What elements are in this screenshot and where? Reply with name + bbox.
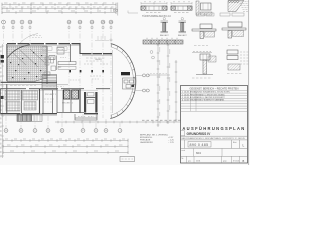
scale reference box bottom xyxy=(120,157,135,162)
svg-text:C: C xyxy=(34,129,36,133)
arc wall outer xyxy=(110,44,136,119)
wall step at x80 xyxy=(80,43,82,54)
room label plate B xyxy=(57,47,67,50)
bottom dimension chain 3 figures xyxy=(10,150,120,152)
grid lines to bottom bubbles xyxy=(6,113,120,128)
svg-text:FLUR: FLUR xyxy=(58,50,64,52)
svg-text:E: E xyxy=(61,129,63,133)
svg-text:gez.: gez. xyxy=(188,161,192,163)
svg-text:AUSFÜHRUNGSPLAN: AUSFÜHRUNGSPLAN xyxy=(182,126,245,131)
svg-text:Blatt: Blatt xyxy=(233,141,237,144)
svg-text:ersb.: ersb. xyxy=(182,149,186,152)
small circles near chain tops xyxy=(150,51,153,54)
interior wall right of hall xyxy=(46,46,48,84)
shaft 1 xyxy=(64,90,71,99)
svg-text:L: L xyxy=(243,144,245,148)
svg-text:1 04.84 ERGÄNZUNG TÜRZARGEN: 1 04.84 ERGÄNZUNG TÜRZARGEN U. STURZ KOR… xyxy=(182,91,230,94)
top dimension chain 2 figures xyxy=(3,6,114,8)
svg-text:M 1:100: M 1:100 xyxy=(233,161,239,163)
dimension end cluster right xyxy=(113,3,118,16)
bubble pair lower right stem xyxy=(135,90,143,92)
bottom row dividers xyxy=(187,156,240,163)
bottom dimension extension verticals xyxy=(3,139,128,155)
bottom dimension chain 2 xyxy=(3,145,128,148)
short dim with note mid right xyxy=(148,74,170,75)
svg-text:05.84: 05.84 xyxy=(196,161,200,163)
grid bubble small tags xyxy=(3,27,113,29)
grid bubble numbers xyxy=(3,20,113,24)
svg-text:B: B xyxy=(20,129,22,133)
detail lintel 2 xyxy=(171,2,192,13)
svg-text:D: D xyxy=(47,129,49,133)
corridor upper line xyxy=(1,84,69,86)
svg-text:TÜRSTURZBALKEN B 1:10: TÜRSTURZBALKEN B 1:10 xyxy=(142,15,171,18)
svg-text:BAULAST: BAULAST xyxy=(178,34,187,37)
subtitle cell box xyxy=(181,131,185,136)
exterior wall top-left xyxy=(7,43,80,45)
legend strip small boxes xyxy=(197,13,245,16)
svg-text:GEGENST. BEREICH – RECHTE FRIS: GEGENST. BEREICH – RECHTE FRISTEN xyxy=(190,88,239,91)
ground line with ticks xyxy=(55,121,185,124)
dark position label at arc xyxy=(121,72,130,75)
stair treads block xyxy=(42,75,57,90)
chain figure marks rotated xyxy=(160,47,170,116)
elevator wall right xyxy=(95,92,97,113)
top dimension chain 3 figures xyxy=(6,10,112,12)
top dimension chain 1 figures xyxy=(4,2,114,4)
bottom wall under elevator xyxy=(84,113,98,115)
grid bubble row top xyxy=(2,20,113,24)
bottom grid bubble numbers xyxy=(5,129,121,133)
stair fixtures right of hall xyxy=(49,56,57,71)
elevator internal partition xyxy=(86,97,95,99)
position label dark dot xyxy=(132,85,135,88)
vertical dimension chain 3 right xyxy=(175,60,178,122)
lower band rack grids xyxy=(5,91,38,112)
small circle tag at wall end xyxy=(110,39,112,41)
svg-text:LAGER: LAGER xyxy=(95,58,102,61)
ground line figures xyxy=(142,119,184,121)
svg-text:PROJEKT 1: PROJEKT 1 xyxy=(45,94,57,96)
svg-text:WC: WC xyxy=(58,67,62,69)
svg-text:4 11.84 GRUNDRISS IV KOMPLET: 4 11.84 GRUNDRISS IV KOMPLETT ÜBERARB. xyxy=(182,99,225,102)
top dimension extension verticals xyxy=(2,3,116,15)
detail sill section A xyxy=(192,24,216,46)
bubble pair mid right stem xyxy=(136,74,143,76)
detail lintel 1 xyxy=(141,2,167,13)
external stair right lighter part xyxy=(32,115,43,122)
svg-text:gepr.: gepr. xyxy=(223,160,227,163)
svg-text:B: B xyxy=(243,159,245,163)
svg-text:– 1.25: – 1.25 xyxy=(168,142,175,144)
paper background xyxy=(0,0,250,165)
rule under room labels xyxy=(40,52,70,54)
interior wall vertical B xyxy=(70,44,72,62)
revision table rules xyxy=(181,91,248,112)
beam rectangle xyxy=(58,62,76,65)
columns row xyxy=(69,70,104,72)
faint dim line above lobby wall xyxy=(95,40,109,42)
svg-text:LAGERBÜRO: LAGERBÜRO xyxy=(140,141,153,144)
hatched hall room xyxy=(7,46,47,82)
elevator lower cell xyxy=(88,100,95,104)
svg-text:890 0 485: 890 0 485 xyxy=(190,143,209,147)
leader note text xyxy=(30,36,42,38)
misc small annotation dashes in plan xyxy=(10,58,106,87)
bottom dimension chain 2 figures xyxy=(7,144,124,146)
top dimension chain 1 xyxy=(2,3,116,6)
arc wall inner xyxy=(111,47,134,115)
bubble pair lower right xyxy=(143,89,150,92)
svg-text:604: 604 xyxy=(196,151,201,155)
exterior wall top-left inner face xyxy=(7,44,80,46)
number row rules xyxy=(181,140,248,156)
left exterior wall xyxy=(6,44,8,114)
grid lines from top bubbles xyxy=(4,25,112,119)
svg-text:GRUNDRISS IV: GRUNDRISS IV xyxy=(187,132,212,136)
corridor lower wall inner face xyxy=(1,89,99,91)
exterior wall top-right xyxy=(82,53,112,55)
detail anchor post 2 xyxy=(178,18,187,38)
level notes text block xyxy=(140,133,175,144)
elevator wall left xyxy=(84,92,86,113)
hall bottom wall xyxy=(1,81,58,83)
svg-text:BAULAST: BAULAST xyxy=(160,34,169,37)
vertical dimension chain 1 right xyxy=(157,43,160,127)
shaft 2 xyxy=(72,90,79,99)
corridor text marks lower band xyxy=(44,99,54,102)
top dimension chain 3 xyxy=(2,11,116,14)
bubble pair mid right xyxy=(143,74,150,77)
external stair xyxy=(17,115,32,122)
svg-text:A: A xyxy=(5,129,7,133)
bottom dimension chain 1 xyxy=(3,139,128,142)
bottom wall middle xyxy=(57,112,84,114)
arc mullion ticks xyxy=(111,44,136,119)
bottom exterior wall left xyxy=(1,113,58,115)
dark section marker left edge B xyxy=(1,60,4,63)
leader curve above top wall xyxy=(20,34,38,44)
subtitle rule xyxy=(181,135,248,137)
room label PROJEKT texts lower band xyxy=(45,94,74,105)
svg-text:H: H xyxy=(105,129,107,133)
detail wall section top xyxy=(196,1,212,15)
lobby east wall xyxy=(112,50,114,113)
scale reference box label xyxy=(122,158,134,160)
svg-text:BEPFLANZ. NR. 1. (FERNW.): BEPFLANZ. NR. 1. (FERNW.) xyxy=(140,133,168,136)
bay protrusion bottom xyxy=(75,114,97,120)
lobby annotation specks xyxy=(84,64,108,79)
thick wall left of elevator block xyxy=(79,89,81,114)
vertical dimension chain 2 right xyxy=(167,43,170,124)
bottom row labels xyxy=(182,157,240,163)
detail roof edge with notes xyxy=(228,0,249,12)
svg-text:3 09.84 ACHSMASSE U. RASTER: 3 09.84 ACHSMASSE U. RASTER KORRIGIERT xyxy=(182,96,225,99)
corridor lower wall xyxy=(1,88,111,90)
lower band partition walls xyxy=(1,89,72,115)
double wall at rack rooms xyxy=(39,89,41,113)
position label info box xyxy=(123,78,136,89)
fixtures cluster centre-left xyxy=(44,57,56,75)
drawing number box xyxy=(188,142,211,147)
dark section marker left edge C xyxy=(1,96,4,99)
small dimension note top right of plan xyxy=(97,37,107,39)
room label texts centre xyxy=(58,50,102,70)
detail corner D xyxy=(227,50,250,74)
grid bubble row bottom xyxy=(4,129,122,133)
detail door jamb C xyxy=(192,51,216,78)
svg-text:BAUVORHABEN WOHN- U. GESCHÄFTS: BAUVORHABEN WOHN- U. GESCHÄFTSHAUS · MUS… xyxy=(182,137,246,140)
leader line top left of details xyxy=(128,11,138,14)
top dimension chain 2 xyxy=(2,7,116,10)
svg-text:2 06.84 FENSTERBANK U. BRÜST: 2 06.84 FENSTERBANK U. BRÜSTUNG GEÄND. xyxy=(182,93,226,96)
detail sill section B xyxy=(222,22,246,46)
hall inner partition marks xyxy=(12,49,44,67)
bottom exterior wall left inner face xyxy=(1,114,58,116)
elevator fixtures xyxy=(88,93,95,97)
middle row divider xyxy=(194,148,223,156)
svg-text:PROJEKT 2: PROJEKT 2 xyxy=(62,103,74,105)
left dimension chain vertical xyxy=(1,44,4,158)
second lintel row xyxy=(143,38,183,44)
curved wall inside hall xyxy=(7,45,30,58)
bottom dimension chain 3 xyxy=(3,151,128,154)
left edge dimension text column xyxy=(0,46,2,158)
bottom dimension chain 1 figures xyxy=(5,138,126,140)
sheet border right edge xyxy=(248,0,250,165)
detail anchor post 1 xyxy=(160,18,169,38)
svg-text:G: G xyxy=(95,129,97,133)
hall dark specks xyxy=(10,52,42,79)
beam rectangle lower rail xyxy=(58,66,76,69)
small room box upper centre xyxy=(57,48,64,55)
room label plate A xyxy=(42,47,52,50)
bay inner text dashes xyxy=(78,115,94,117)
title block outer border xyxy=(181,86,248,164)
exterior wall top-right inner face xyxy=(82,54,112,56)
dark section marker left edge A xyxy=(1,55,4,58)
